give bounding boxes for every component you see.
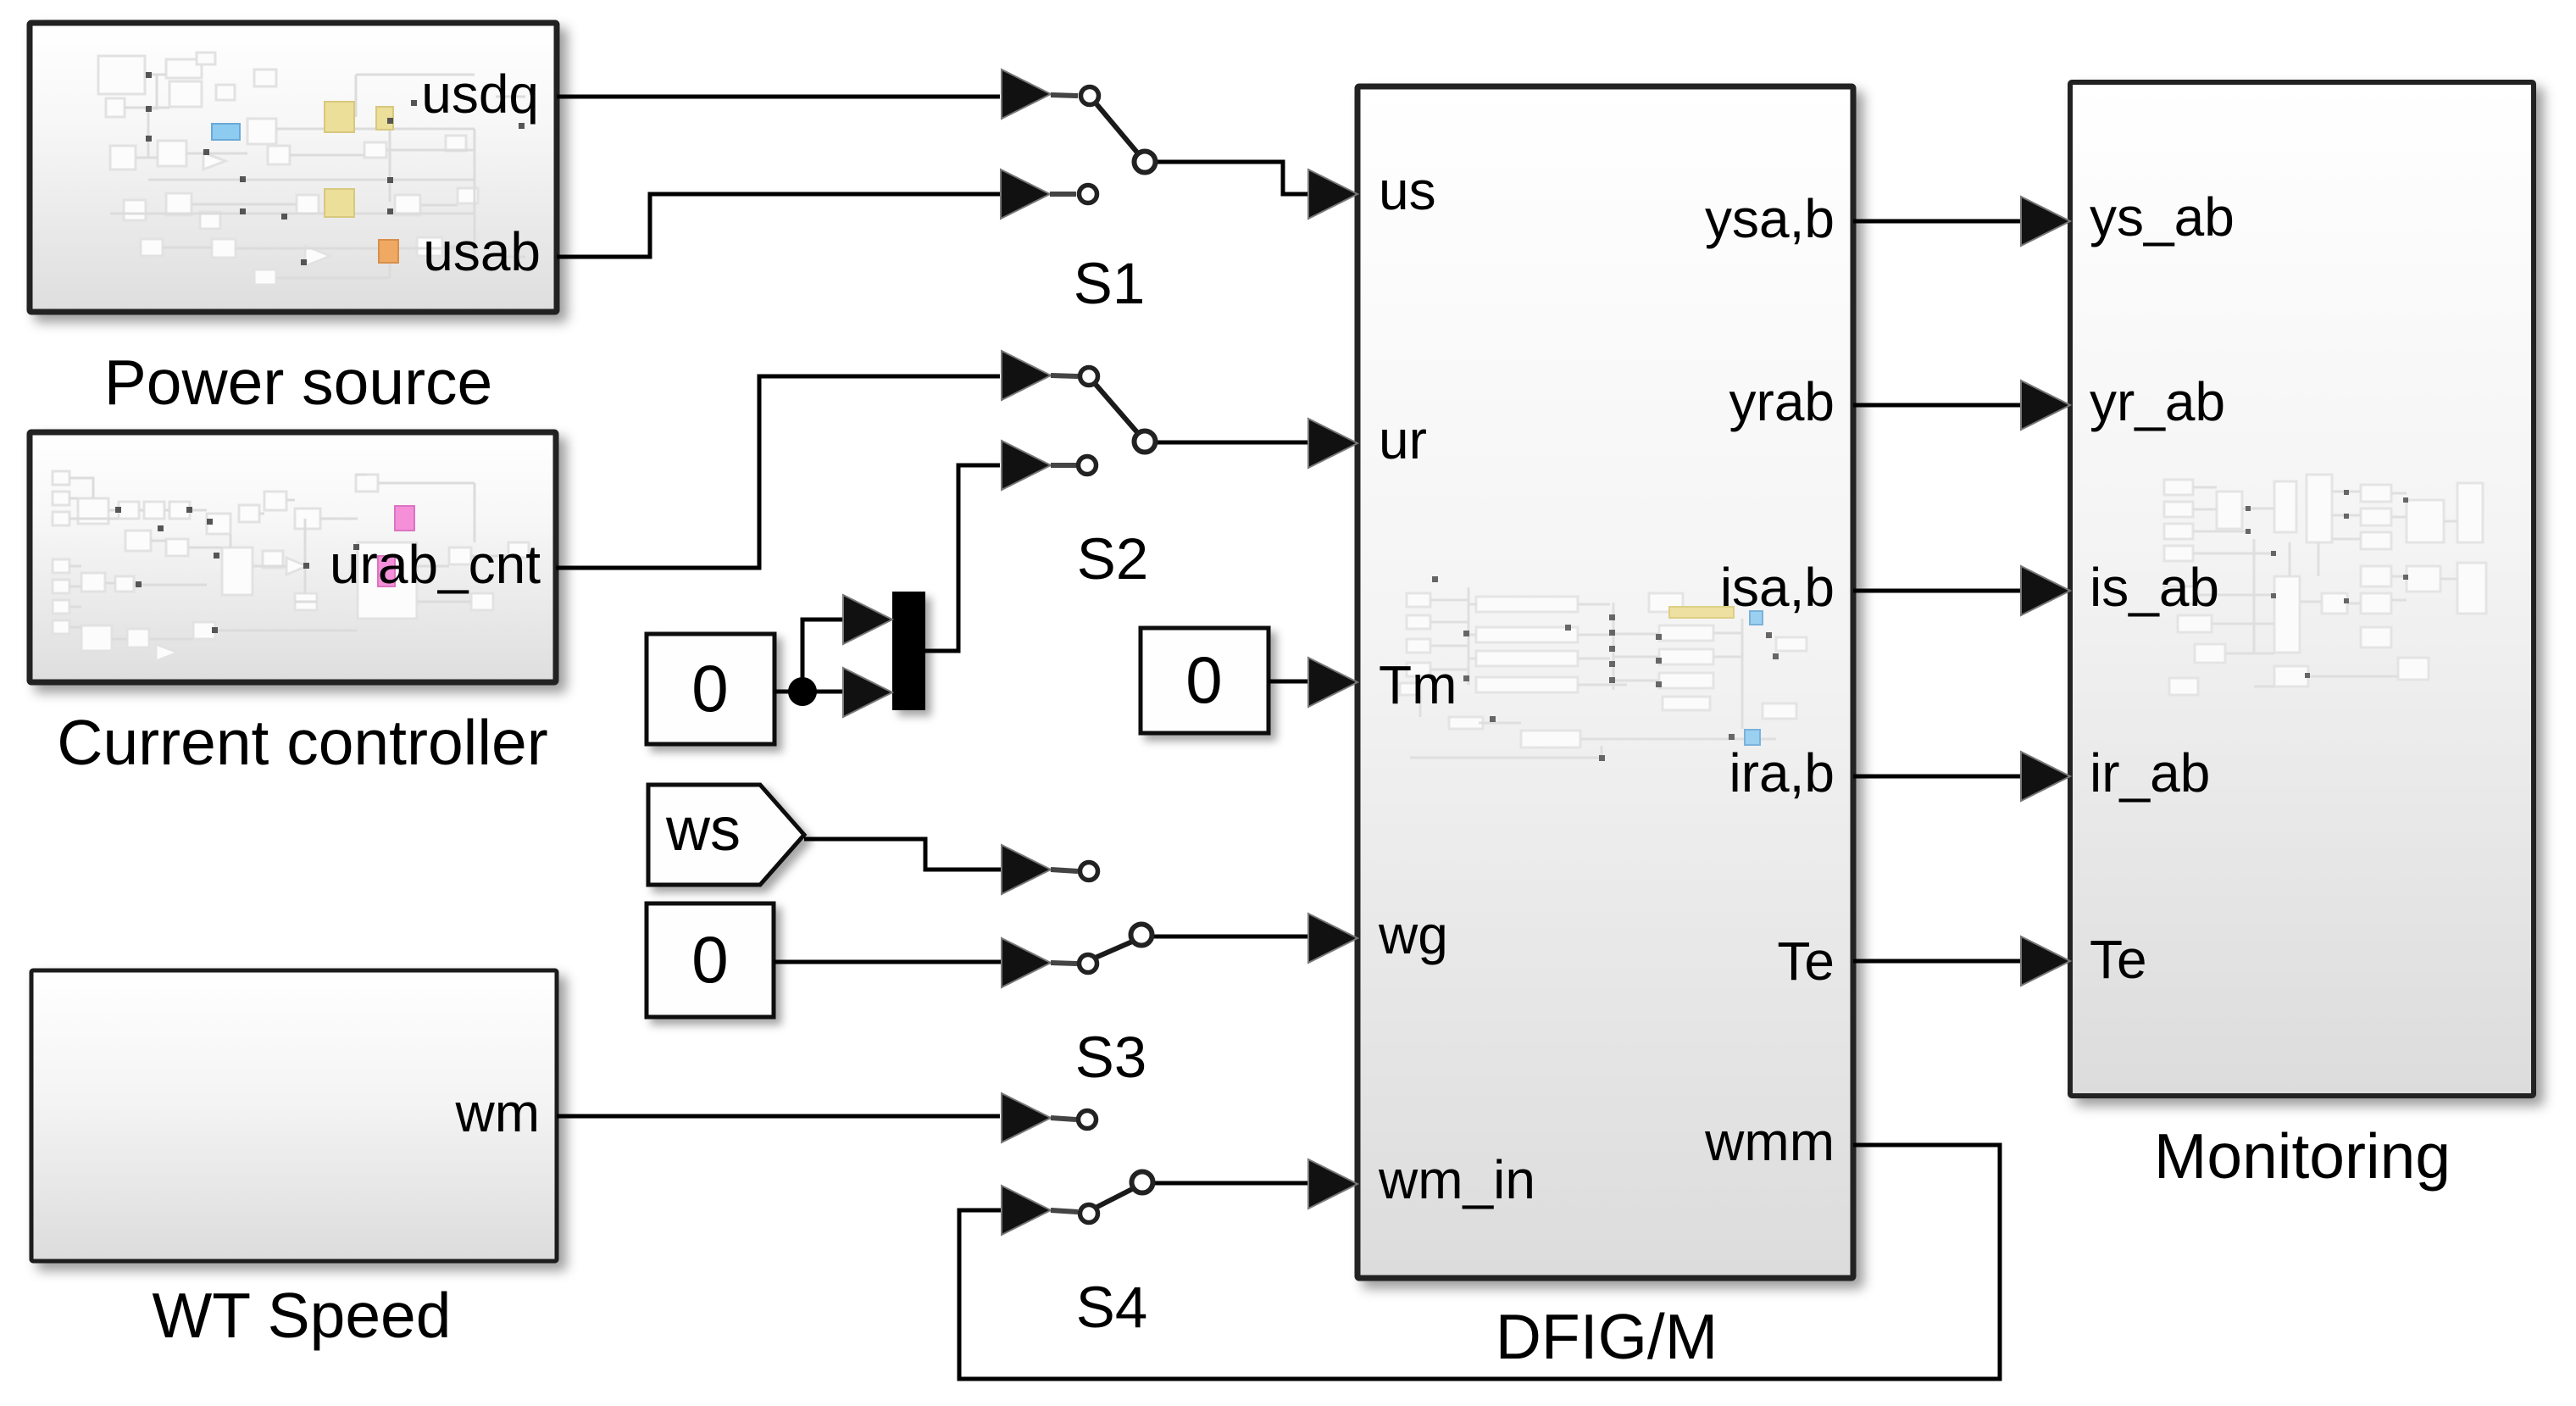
svg-text:Power source: Power source: [104, 347, 493, 418]
svg-text:is_ab: is_ab: [2090, 557, 2219, 618]
S1 pole circle 2: [1080, 186, 1097, 203]
svg-text:wm_in: wm_in: [1378, 1149, 1535, 1210]
wire usdq to S1 upper: [557, 95, 1000, 99]
svg-text:ys_ab: ys_ab: [2090, 186, 2235, 247]
Monitoring Te port arrow: [2021, 936, 2070, 986]
DFIG us port arrow: [1308, 169, 1357, 219]
S4 lever: [1092, 1186, 1139, 1209]
Power source thumbnail sketch: [98, 53, 478, 285]
DFIG/M accent yellow bar: [1669, 607, 1734, 618]
Monitoring yr_ab port arrow: [2021, 381, 2070, 430]
S2 pole circle 1: [1080, 368, 1098, 386]
mux input arrow 2: [843, 668, 892, 717]
wire Te to Te: [1853, 959, 2023, 964]
wire S2 out to ur port: [1158, 441, 1310, 445]
Monitoring ys_ab port arrow: [2021, 197, 2070, 246]
constant block 0 (mux source): [647, 634, 774, 744]
S3 pole circle 1: [1080, 863, 1098, 881]
S3 lever: [1091, 939, 1138, 959]
wire wmm feedback to S4 lower: [959, 1145, 2000, 1379]
Current controller thumbnail dots: [115, 507, 359, 633]
S4 output circle: [1132, 1172, 1153, 1193]
DFIG wm_in port arrow: [1308, 1159, 1357, 1209]
S1 lever: [1093, 100, 1142, 158]
S3 pole circle 2: [1080, 955, 1097, 973]
svg-text:S1: S1: [1074, 251, 1145, 316]
svg-text:yrab: yrab: [1729, 371, 1835, 432]
svg-text:urab_cnt: urab_cnt: [330, 534, 541, 595]
wire isa,b to is_ab: [1853, 589, 2023, 593]
S3 input arrow 2: [1002, 938, 1051, 987]
svg-text:Tm: Tm: [1379, 654, 1457, 715]
S2 stub 1: [1051, 375, 1078, 376]
S1 input arrow 2: [1001, 169, 1050, 219]
wire wm to S4 upper: [557, 1114, 1000, 1119]
Current controller accent pink 1: [395, 506, 414, 531]
S4 pole circle 1: [1079, 1111, 1096, 1129]
subsystem block WT Speed: [31, 970, 557, 1261]
svg-text:wg: wg: [1378, 904, 1448, 965]
svg-text:ws: ws: [665, 796, 741, 864]
constant block 0 (Tm): [1141, 628, 1269, 733]
Power source accent blue gain: [212, 124, 240, 140]
svg-text:Te: Te: [2090, 929, 2147, 990]
Current controller accent pink 2: [378, 556, 395, 586]
wire ysa,b to ys_ab: [1853, 220, 2023, 224]
S1 output circle: [1135, 152, 1156, 173]
S4 stub 1: [1051, 1118, 1076, 1120]
DFIG wg port arrow: [1308, 914, 1357, 963]
wire ira,b to ir_ab: [1853, 775, 2023, 779]
S2 pole circle 2: [1079, 457, 1096, 475]
svg-text:S2: S2: [1077, 526, 1148, 592]
S3 stub 1: [1051, 870, 1078, 871]
S2 stub 2: [1051, 463, 1076, 468]
wire S4 out to wm_in port: [1155, 1181, 1310, 1186]
svg-text:ira,b: ira,b: [1729, 742, 1835, 803]
svg-text:Current controller: Current controller: [57, 707, 547, 778]
S3 output circle: [1131, 925, 1152, 946]
Power source accent yellow small: [376, 107, 393, 130]
mux input arrow 1: [843, 595, 892, 644]
junction dot: [788, 677, 817, 706]
svg-text:usab: usab: [423, 221, 541, 282]
svg-text:us: us: [1379, 160, 1436, 221]
wire const0 to Tm port: [1269, 680, 1310, 684]
svg-text:yr_ab: yr_ab: [2090, 371, 2225, 432]
svg-text:Monitoring: Monitoring: [2154, 1120, 2451, 1192]
S4 input arrow 1: [1002, 1093, 1051, 1142]
S1 stub 2: [1050, 192, 1076, 197]
S3 stub 2: [1051, 963, 1077, 964]
mux block: [892, 592, 925, 710]
wire junction to mux in1: [802, 620, 845, 692]
wire const0 to junction: [774, 690, 802, 694]
DFIG Tm port arrow: [1308, 658, 1357, 707]
subsystem block Power source: [30, 23, 557, 312]
wire ws to S3 upper: [804, 839, 1001, 870]
S2 input arrow 1: [1002, 351, 1051, 400]
S2 lever: [1092, 381, 1142, 438]
DFIG/M accent blue 2: [1745, 730, 1760, 745]
svg-text:S4: S4: [1076, 1275, 1147, 1340]
DFIG/M thumbnail sketch: [1400, 593, 1807, 747]
Monitoring is_ab port arrow: [2021, 566, 2070, 615]
svg-text:ur: ur: [1379, 409, 1427, 470]
svg-text:WT Speed: WT Speed: [153, 1280, 452, 1351]
S3 input arrow 1: [1002, 845, 1051, 894]
svg-text:0: 0: [691, 922, 728, 997]
svg-text:Te: Te: [1777, 931, 1835, 992]
svg-text:DFIG/M: DFIG/M: [1496, 1301, 1718, 1372]
svg-text:wm: wm: [454, 1082, 540, 1143]
S1 stub 1: [1051, 95, 1078, 96]
subsystem block Monitoring: [2070, 82, 2534, 1096]
Power source accent yellow block 2: [325, 189, 354, 217]
constant block 0 (S3): [647, 903, 774, 1017]
svg-text:S3: S3: [1075, 1025, 1146, 1090]
Monitoring thumbnail dots: [2246, 490, 2408, 678]
wire junction to mux in2: [802, 690, 845, 694]
goto tag ws: [648, 785, 804, 885]
DFIG ur port arrow: [1308, 419, 1357, 468]
DFIG/M thumbnail dots: [1432, 576, 1779, 761]
S1 input arrow 1: [1002, 69, 1051, 119]
svg-text:usdq: usdq: [421, 64, 539, 125]
svg-text:isa,b: isa,b: [1720, 557, 1835, 618]
Monitoring ir_ab port arrow: [2021, 752, 2070, 801]
S4 pole circle 2: [1080, 1205, 1098, 1223]
Power source accent orange: [379, 240, 398, 263]
Power source thumbnail dots: [146, 72, 525, 265]
Current controller thumbnail sketch: [53, 471, 529, 661]
wire const0 to S3 lower: [774, 960, 1001, 964]
subsystem block Current controller: [30, 432, 556, 682]
wire S1 out to us port: [1158, 162, 1310, 194]
svg-text:ysa,b: ysa,b: [1705, 188, 1835, 249]
svg-text:wmm: wmm: [1704, 1111, 1835, 1172]
wire S3 out to wg port: [1154, 935, 1310, 939]
wire yrab to yr_ab: [1853, 403, 2023, 408]
wire urab_cnt to S2 upper: [556, 376, 1000, 568]
S4 stub 2: [1051, 1210, 1078, 1212]
subsystem block DFIG/M: [1357, 86, 1853, 1278]
wire mux out to S2 lower: [925, 465, 1000, 651]
DFIG/M accent blue 1: [1750, 611, 1763, 625]
S1 pole circle 1: [1081, 87, 1099, 105]
Monitoring thumbnail sketch: [2164, 475, 2486, 695]
svg-text:0: 0: [691, 651, 728, 725]
Power source accent yellow block 1: [325, 102, 354, 132]
svg-text:0: 0: [1185, 642, 1222, 717]
wire usab to S1 lower: [557, 194, 1000, 257]
S2 output circle: [1135, 431, 1156, 453]
S2 input arrow 2: [1002, 441, 1051, 490]
S4 input arrow 2: [1002, 1186, 1051, 1235]
svg-text:ir_ab: ir_ab: [2090, 742, 2210, 803]
